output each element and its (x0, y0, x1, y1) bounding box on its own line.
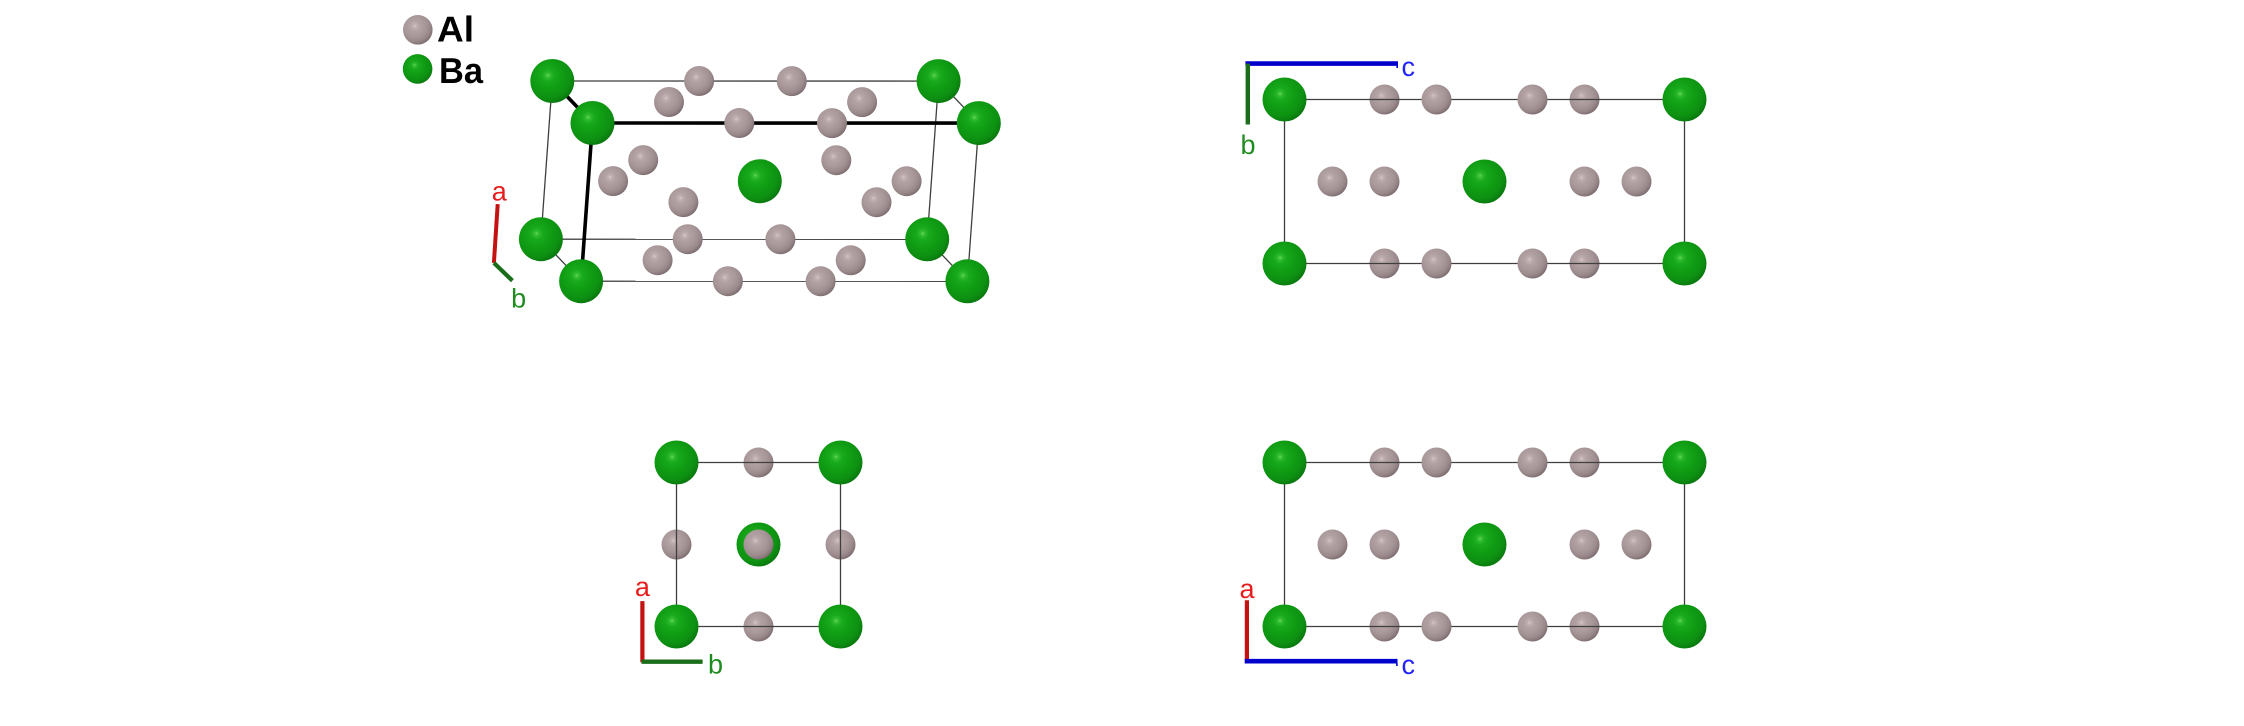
Al atom (817, 108, 847, 138)
Al atom (middle row, panel 2) (1318, 167, 1348, 197)
svg-text:b: b (511, 283, 526, 313)
Al atom bottom edge (panel 3) (744, 612, 774, 642)
Al atom (bottom row, panel 4) (1370, 612, 1400, 642)
Al atom (806, 266, 836, 296)
Al atom (777, 66, 807, 96)
cell edge top (panel 4) (1285, 462, 1685, 464)
svg-text:a: a (492, 176, 508, 206)
Al atom (862, 187, 892, 217)
Ba atom (905, 217, 949, 261)
Al atom (713, 266, 743, 296)
cell edge (thin) (581, 280, 967, 282)
Ba atom corner (panel 2) (1263, 242, 1307, 286)
Al atom (top row, panel 2) (1570, 85, 1600, 115)
axis a line (panel 4) (1245, 600, 1249, 661)
cell edge top (panel 3) (677, 462, 841, 464)
cell edge (thick) (552, 81, 592, 123)
Ba atom corner (panel 4) (1663, 605, 1707, 649)
cell edge (thin) (927, 81, 938, 239)
Al atom (middle row, panel 4) (1370, 530, 1400, 560)
Al atom (673, 224, 703, 254)
Al atom (bottom row, panel 4) (1570, 612, 1600, 642)
cell edge (thin) (541, 239, 581, 281)
Ba atom corner (panel 4) (1263, 441, 1307, 485)
Al atom (bottom row, panel 2) (1370, 249, 1400, 279)
legend Al sphere (403, 15, 433, 45)
axis c line (panel 2) (1245, 61, 1398, 66)
cell edge bottom (panel 4) (1285, 626, 1685, 628)
Al atom (668, 187, 698, 217)
axis c line end tick (panel 4) (1396, 663, 1398, 666)
Ba atom centre (panel 2) (1463, 160, 1507, 204)
axis a line (panel 3) (640, 601, 644, 662)
Ba atom corner (panel 2) (1663, 78, 1707, 122)
axis c line (panel 4) (1245, 659, 1398, 664)
Al atom (598, 166, 628, 196)
Ba atom corner (panel 2) (1663, 242, 1707, 286)
legend Ba sphere (403, 54, 433, 84)
svg-text:b: b (708, 649, 723, 679)
cell edge right (panel 4) (1684, 463, 1686, 627)
cell edge right (panel 3) (840, 463, 842, 627)
Ba atom (530, 59, 574, 103)
svg-text:a: a (635, 572, 651, 602)
axis c line end tick (panel 2) (1396, 66, 1398, 69)
Al atom (middle row, panel 4) (1318, 530, 1348, 560)
Ba atom corner (panel 4) (1663, 441, 1707, 485)
cell edge (thin) (967, 123, 978, 281)
Al atom (654, 87, 684, 117)
svg-text:c: c (1402, 52, 1416, 82)
Al atom centre overlapping Ba (panel 3) (744, 530, 774, 560)
axis a line (panel 1) (494, 204, 498, 263)
cell edge top (panel 2) (1285, 99, 1685, 101)
Ba atom corner (panel 3) (819, 605, 863, 649)
cell edge (thin) (552, 80, 938, 82)
Al atom (821, 145, 851, 175)
Ba atom (945, 259, 989, 303)
Ba atom (957, 101, 1001, 145)
cell edge bottom (panel 2) (1285, 263, 1685, 265)
cell edge (thin) (927, 239, 967, 281)
Al atom (middle row, panel 2) (1370, 167, 1400, 197)
Al atom (top row, panel 2) (1370, 85, 1400, 115)
Ba atom (559, 259, 603, 303)
Ba atom corner (panel 4) (1263, 605, 1307, 649)
Al atom (bottom row, panel 2) (1518, 249, 1548, 279)
cell edge left (panel 4) (1284, 463, 1286, 627)
Al atom (top row, panel 2) (1518, 85, 1548, 115)
Al atom (top row, panel 4) (1518, 448, 1548, 478)
cell edge bottom (panel 3) (677, 626, 841, 628)
cell edge (thick) (593, 121, 979, 125)
Ba atom centre (panel 4) (1463, 523, 1507, 567)
svg-text:Al: Al (437, 9, 474, 50)
svg-text:Ba: Ba (439, 50, 484, 91)
svg-text:c: c (1402, 650, 1416, 680)
Al atom (892, 166, 922, 196)
Ba atom (519, 217, 563, 261)
Al atom (top row, panel 4) (1570, 448, 1600, 478)
Ba atom corner (panel 3) (655, 605, 699, 649)
Al atom (628, 145, 658, 175)
Ba atom (571, 101, 615, 145)
Al atom (bottom row, panel 4) (1518, 612, 1548, 642)
axis b line (panel 2) (1246, 64, 1250, 125)
Al atom right edge (panel 3) (826, 530, 856, 560)
Al atom (836, 245, 866, 275)
Al atom (middle row, panel 2) (1570, 167, 1600, 197)
cell edge left (panel 2) (1284, 100, 1286, 264)
Al atom (middle row, panel 2) (1622, 167, 1652, 197)
Al atom (643, 245, 673, 275)
axis b line (panel 1) (494, 263, 513, 281)
Al atom left edge (panel 3) (662, 530, 692, 560)
Al atom top edge (panel 3) (744, 448, 774, 478)
Ba atom corner (panel 2) (1263, 78, 1307, 122)
Al atom (765, 224, 795, 254)
Al atom (724, 108, 754, 138)
Ba atom corner (panel 3) (819, 441, 863, 485)
Al atom (top row, panel 4) (1422, 448, 1452, 478)
Ba atom corner (panel 3) (655, 441, 699, 485)
cell edge (thin) (939, 81, 979, 123)
Al atom (bottom row, panel 2) (1570, 249, 1600, 279)
Al atom (bottom row, panel 2) (1422, 249, 1452, 279)
Al atom (top row, panel 4) (1370, 448, 1400, 478)
Al atom (top row, panel 2) (1422, 85, 1452, 115)
Ba atom centre (panel 3) (737, 523, 781, 567)
cell edge (thick) (581, 123, 592, 281)
svg-text:a: a (1239, 574, 1255, 604)
axis b line (panel 3) (642, 660, 703, 664)
Al atom (middle row, panel 4) (1570, 530, 1600, 560)
Al atom (684, 66, 714, 96)
cell edge left (panel 3) (676, 463, 678, 627)
Al atom (middle row, panel 4) (1622, 530, 1652, 560)
Ba atom (917, 59, 961, 103)
cell edge right (panel 2) (1684, 100, 1686, 264)
svg-text:b: b (1240, 130, 1255, 160)
Al atom (847, 87, 877, 117)
cell edge (thin) (541, 81, 552, 239)
Ba atom (738, 159, 782, 203)
Al atom (bottom row, panel 4) (1422, 612, 1452, 642)
cell edge (thin) (541, 238, 927, 240)
